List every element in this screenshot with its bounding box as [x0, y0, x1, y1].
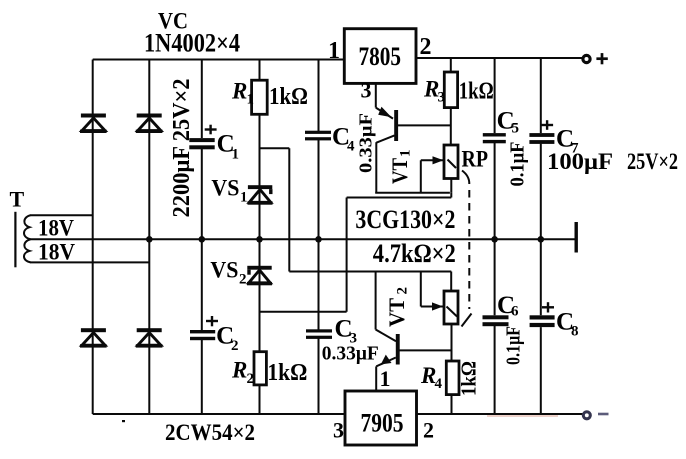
resistor R2 — [254, 352, 266, 385]
zener VS1 — [248, 185, 273, 205]
transformer T winding upper — [24, 215, 31, 239]
wire branch vertical x289 — [288, 148, 290, 271]
svg-text:4.7kΩ×2: 4.7kΩ×2 — [373, 239, 456, 268]
wire 7805 pin3 stub — [375, 83, 377, 108]
wire C6 column bottom — [494, 326, 496, 414]
wire C4 column top — [318, 60, 320, 132]
wire C7 column top — [540, 58, 542, 133]
dashed gang link — [462, 171, 472, 327]
wire C1 column upper — [201, 60, 203, 139]
wire R1 top — [259, 60, 261, 81]
svg-text:8: 8 — [571, 324, 579, 340]
wire RP2 wiper vertical — [420, 272, 422, 307]
junction node CT-C5C6 — [491, 236, 498, 243]
svg-text:1: 1 — [328, 38, 340, 64]
wire ground rail center tap — [30, 238, 575, 240]
wire lower node line — [289, 271, 451, 273]
wire branch VS2-R2 horizontal — [260, 311, 347, 313]
wire C5 column to ground — [494, 143, 496, 239]
junction node CT-VS — [256, 236, 263, 243]
wire VT1 base lead — [398, 124, 451, 126]
svg-text:VT: VT — [384, 298, 409, 327]
wire R4 bottom — [451, 395, 453, 414]
svg-text:VS: VS — [211, 175, 239, 200]
svg-text:2: 2 — [239, 271, 247, 287]
capacitor C1 — [189, 125, 239, 163]
svg-text:0.33μF: 0.33μF — [322, 343, 379, 365]
svg-text:2: 2 — [423, 418, 434, 443]
wire RP1 wiper horizontal — [421, 159, 444, 161]
svg-text:3CG130×2: 3CG130×2 — [355, 205, 455, 234]
wire C2 column lower — [201, 340, 203, 414]
wire top rail right — [416, 57, 586, 59]
wire vertical x346 — [346, 198, 348, 312]
svg-text:18V: 18V — [38, 215, 74, 240]
svg-text:100μF: 100μF — [547, 149, 613, 174]
svg-text:VS: VS — [210, 257, 238, 282]
diode D3 — [80, 328, 107, 347]
terminal minus circle — [583, 412, 590, 419]
label minus sign — [598, 413, 609, 416]
potentiometer RP1 — [433, 145, 459, 179]
wire VT2 collector diagonal — [376, 330, 396, 342]
wire C8 column from ground — [540, 239, 542, 315]
svg-text:0.33μF: 0.33μF — [356, 113, 376, 173]
wire C5 column top — [494, 58, 496, 133]
wire R3 bottom to RP1 — [450, 108, 452, 145]
wire R2 bottom — [259, 385, 261, 415]
resistor R1 — [252, 80, 268, 114]
svg-text:18V: 18V — [38, 240, 75, 265]
transformer T core — [14, 212, 16, 267]
capacitor C3 — [306, 316, 357, 347]
diode D4 — [136, 328, 163, 347]
wire VT2 emitter diagonal — [376, 358, 396, 367]
capacitor C4 — [305, 124, 355, 155]
wire RP1 wiper vertical — [420, 160, 422, 193]
svg-text:2: 2 — [420, 34, 432, 60]
wire second diode column — [148, 60, 150, 415]
wire RP2 bottom to R4 — [451, 324, 453, 361]
svg-text:7905: 7905 — [361, 409, 404, 438]
svg-text:1N4002×4: 1N4002×4 — [144, 29, 240, 58]
svg-text:0.1μF: 0.1μF — [503, 326, 525, 365]
svg-text:1kΩ: 1kΩ — [457, 361, 481, 396]
regulator U1 7805 box — [344, 29, 416, 84]
resistor R4 — [446, 361, 459, 395]
wire transformer terminal A — [30, 214, 93, 216]
svg-text:VT: VT — [387, 158, 412, 184]
ground common terminal bar — [575, 222, 578, 253]
capacitor C2 — [190, 316, 239, 354]
terminal plus circle — [583, 55, 590, 62]
wire upper node line A — [375, 192, 450, 194]
junction node CT-C4C3 — [315, 236, 322, 243]
wire VT1 emitter diagonal — [376, 108, 393, 119]
svg-text:1: 1 — [398, 150, 414, 158]
svg-text:1: 1 — [240, 189, 248, 205]
svg-text:7805: 7805 — [359, 42, 402, 71]
svg-text:2200μF 25V×2: 2200μF 25V×2 — [169, 79, 195, 218]
potentiometer RP2 — [432, 291, 458, 324]
junction node CT-D2 — [146, 236, 153, 243]
svg-text:4: 4 — [435, 376, 443, 392]
wire VT2 base lead — [399, 349, 452, 351]
svg-text:1: 1 — [247, 92, 255, 108]
svg-text:3: 3 — [438, 90, 446, 106]
svg-text:0.1μF: 0.1μF — [507, 142, 529, 187]
wire VT2 collector vertical — [375, 272, 377, 330]
transistor VT2 — [381, 334, 400, 365]
svg-text:3: 3 — [361, 78, 372, 103]
svg-text:2: 2 — [395, 287, 411, 295]
wire C1-C2 column middle — [201, 149, 203, 330]
transistor VT1 — [378, 107, 398, 141]
wire C8 column bottom — [540, 327, 542, 414]
wire node connector — [450, 193, 452, 198]
wire R1-VS1-VS2-R2 column — [259, 114, 261, 352]
wire top rail left — [93, 59, 345, 61]
wire C3 column bottom — [318, 338, 320, 414]
wire transformer terminal B — [30, 261, 149, 263]
svg-text:4: 4 — [347, 139, 355, 155]
svg-text:1kΩ: 1kΩ — [269, 84, 308, 110]
scan artifact red smudge — [487, 415, 558, 417]
wire VT1 collector diagonal — [376, 135, 394, 142]
diode D1 — [80, 114, 107, 134]
transformer T winding lower — [24, 239, 31, 262]
svg-text:6: 6 — [511, 304, 519, 320]
svg-text:T: T — [10, 186, 25, 211]
wire bottom rail right — [416, 413, 588, 415]
capacitor C5 — [483, 108, 519, 144]
svg-text:1: 1 — [232, 147, 240, 163]
wire C7 column to ground — [540, 144, 542, 240]
capacitor C6 — [483, 292, 520, 326]
wire upper node line B — [347, 197, 452, 199]
wire C4-C3 column middle — [318, 140, 320, 330]
wire left diode column — [92, 60, 94, 415]
svg-text:R: R — [231, 78, 247, 103]
wire C6 column from ground — [494, 239, 496, 315]
wire RP2 wiper horizontal — [421, 306, 443, 308]
wire RP2 top feed — [450, 272, 452, 292]
svg-text:2: 2 — [231, 338, 239, 354]
wire bottom rail left — [93, 413, 346, 415]
svg-text:2: 2 — [247, 371, 255, 387]
svg-text:1kΩ: 1kΩ — [459, 78, 494, 104]
resistor R3 — [444, 72, 457, 108]
svg-text:3: 3 — [333, 418, 344, 443]
svg-text:1: 1 — [380, 366, 391, 391]
svg-text:R: R — [231, 358, 247, 383]
svg-text:1kΩ: 1kΩ — [267, 360, 307, 386]
diode D2 — [136, 114, 163, 134]
scan artifact speck — [122, 420, 125, 422]
capacitor C7 — [529, 120, 579, 156]
junction node CT-C1C2 — [199, 236, 206, 243]
svg-text:25V×2: 25V×2 — [627, 149, 678, 174]
wire R3 top — [450, 58, 452, 73]
zener VS2 — [247, 266, 272, 286]
wire branch R1-VS1 horizontal — [260, 147, 290, 149]
regulator U2 7905 box — [345, 391, 417, 445]
wire VT1 collector vertical — [375, 142, 377, 193]
svg-text:RP: RP — [462, 147, 489, 172]
label plus sign — [596, 53, 607, 64]
svg-text:5: 5 — [512, 121, 520, 137]
capacitor C8 — [530, 302, 579, 339]
svg-text:2CW54×2: 2CW54×2 — [165, 420, 255, 445]
wire RP1 bottom stub — [450, 179, 452, 193]
junction node CT-C7C8 — [538, 236, 545, 243]
wire 7905 pin1 stub — [375, 366, 377, 391]
